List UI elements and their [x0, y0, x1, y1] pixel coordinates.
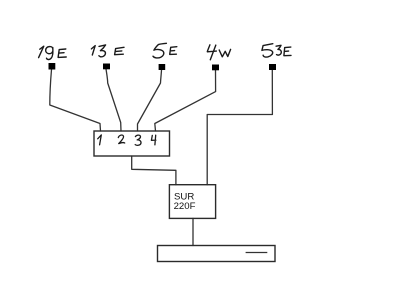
svg-text:220F: 220F [174, 201, 196, 212]
